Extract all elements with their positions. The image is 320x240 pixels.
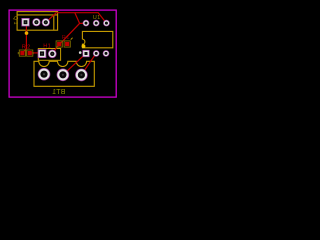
Q1 pad 2: [32, 18, 40, 26]
BT1 pad 2: [57, 69, 70, 82]
resistor R1 outline tick: [71, 38, 73, 40]
U1 pad 4 (square): [82, 50, 89, 57]
U1 pad 2: [93, 20, 100, 27]
battery holder BT1 outline: [34, 61, 94, 86]
U1 pad 6: [103, 50, 110, 57]
BT1 pad 1: [38, 68, 51, 81]
svg-text:H1: H1: [43, 43, 51, 49]
Q1 pad 3: [42, 18, 50, 26]
board outline (Edge.Cuts): [9, 10, 116, 97]
wire Q1 pad3 to U1 pad3: [46, 13, 107, 23]
via on Q1-R2 wire: [25, 31, 29, 35]
resistor R1 pad 1: [56, 41, 62, 47]
svg-text:BT1: BT1: [52, 89, 65, 96]
header H1 outline: [38, 49, 60, 61]
wire U1 pad4 to BT1 pad2: [63, 53, 86, 74]
wire H1 pad2 to U1 pad1: [52, 23, 86, 53]
U1 pad 5: [93, 50, 100, 57]
transistor Q1 outline: [17, 12, 58, 31]
Q1 pad 1 (square): [21, 18, 29, 26]
resistor R2 outline ticks: [18, 52, 33, 54]
wire R2 pad2 to H1 pad1: [31, 52, 43, 54]
IC U1 outline: [82, 31, 112, 47]
background: [0, 0, 126, 107]
U1 pad 3: [103, 20, 110, 27]
H1 pad 2: [48, 50, 57, 59]
U1 pin-1 dot: [82, 44, 86, 48]
svg-text:Q1: Q1: [12, 16, 18, 25]
BT1 pad 3: [75, 69, 88, 82]
via near U1 pad4: [79, 51, 82, 54]
wire U1 pad5 to BT1 pad3: [81, 53, 96, 74]
resistor R1 pad 2: [64, 41, 70, 47]
resistor R2 pad 2: [27, 50, 33, 56]
wire branch from horizontal net down to U1 pad1 junction: [75, 13, 80, 24]
resistor R2 pad 1: [19, 50, 25, 56]
U1 pad 1: [83, 20, 90, 27]
H1 pad 1 (square): [38, 49, 47, 58]
wire Q1 pad1 to R2 pad1: [23, 22, 26, 52]
